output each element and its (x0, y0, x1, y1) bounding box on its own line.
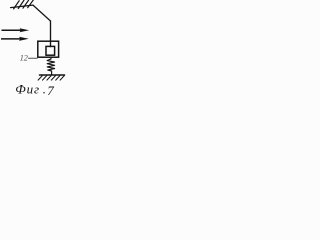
wall hatch tick 1 (14, 1, 20, 9)
svg-text:12: 12 (20, 54, 28, 63)
diagonal rod from wall to elbow (33, 5, 51, 21)
vertical rod down to piston (50, 21, 52, 47)
force arrow lower (1, 37, 29, 41)
piston inner box 12 (46, 46, 55, 55)
wall hatch tick 4 (28, 0, 34, 8)
ground line (40, 74, 65, 76)
wall hatch tick 2 (18, 0, 24, 8)
ground hatch tick 3 (47, 76, 51, 81)
spring (47, 57, 54, 74)
svg-text:Фиг.7: Фиг.7 (15, 82, 54, 99)
ground hatch tick 2 (43, 76, 47, 81)
ground hatch tick 1 (38, 76, 42, 81)
wall support line (11, 5, 34, 8)
ground hatch tick 4 (51, 76, 55, 81)
force arrow upper (2, 28, 30, 32)
ground hatch tick 6 (60, 76, 64, 81)
wall hatch tick 3 (23, 0, 29, 8)
leader dash from label 12 (29, 57, 38, 59)
damper outer box (38, 41, 59, 57)
ground hatch tick 5 (56, 76, 60, 81)
